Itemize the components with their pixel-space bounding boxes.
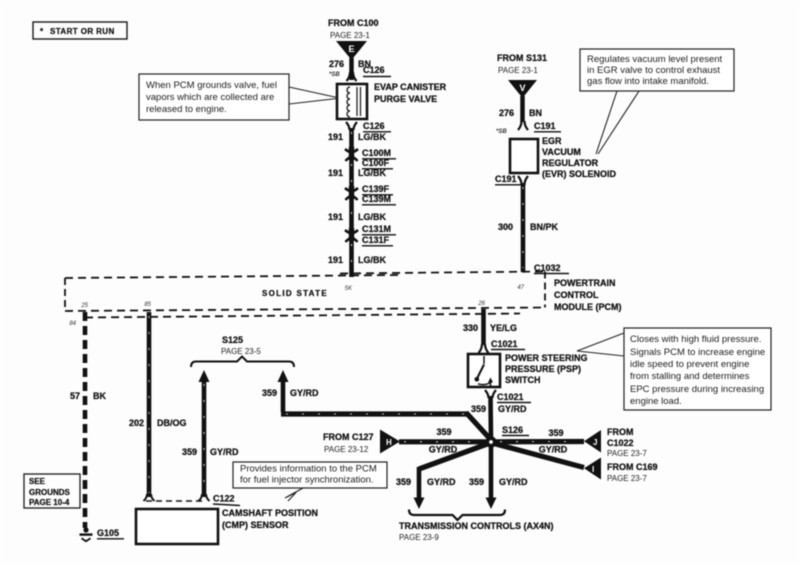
svg-text:FROM S131: FROM S131 <box>497 53 547 63</box>
svg-text:C100F: C100F <box>362 158 390 168</box>
svg-text:PAGE 23-7: PAGE 23-7 <box>607 449 647 458</box>
ground G105 <box>80 527 125 541</box>
SEE GROUNDS box <box>24 474 80 508</box>
svg-text:PAGE 23-9: PAGE 23-9 <box>399 533 439 542</box>
svg-text:Regulates vacuum level present: Regulates vacuum level present <box>587 54 723 65</box>
svg-text:47: 47 <box>517 285 524 291</box>
svg-text:C126: C126 <box>363 65 385 75</box>
svg-text:vapors which are collected are: vapors which are collected are <box>146 92 274 103</box>
label FROM C100 PAGE 23-1 <box>328 18 379 40</box>
connector triangle J <box>584 430 601 453</box>
svg-text:idle speed to prevent engine: idle speed to prevent engine <box>630 359 749 370</box>
wire label 202 DB/OG <box>129 418 187 428</box>
svg-text:PAGE 23-5: PAGE 23-5 <box>221 347 261 356</box>
wire label 359 GY/RD (down) <box>469 477 528 487</box>
wire from V to EGR <box>520 96 525 122</box>
connector triangle H <box>380 430 400 454</box>
svg-text:PAGE 23-1: PAGE 23-1 <box>498 66 538 75</box>
svg-text:276: 276 <box>329 59 344 69</box>
label FROM C169 PAGE 23-7 <box>607 462 658 483</box>
svg-text:359: 359 <box>436 427 451 437</box>
callout: when PCM grounds valve <box>139 74 337 120</box>
svg-text:YE/LG: YE/LG <box>490 323 517 333</box>
svg-text:C139F: C139F <box>362 184 390 194</box>
wire label 191 LG/BK (3) <box>328 212 387 222</box>
svg-text:VACUUM: VACUUM <box>542 147 581 157</box>
connector triangle E <box>336 41 367 60</box>
dashed connector line C122 <box>146 500 204 502</box>
svg-text:When PCM grounds valve, fuel: When PCM grounds valve, fuel <box>146 80 277 91</box>
svg-text:GY/RD: GY/RD <box>290 388 319 398</box>
svg-text:*SB: *SB <box>329 72 340 78</box>
label FROM S131 PAGE 23-1 <box>497 53 547 75</box>
wire label 300 BN/PK <box>498 222 559 232</box>
svg-text:SEE: SEE <box>29 477 46 486</box>
svg-text:LG/BK: LG/BK <box>358 132 386 142</box>
wire H to junction <box>399 439 487 444</box>
connector bell below EGR <box>518 176 528 185</box>
svg-text:276: 276 <box>499 108 514 118</box>
label POWER STEERING PRESSURE (PSP) SWITCH <box>505 353 588 385</box>
label EGR VACUUM REGULATOR (EVR) SOLENOID <box>542 136 617 179</box>
connector bell C1021 top <box>479 339 526 353</box>
svg-text:EGR: EGR <box>542 136 562 146</box>
svg-text:25: 25 <box>80 303 88 309</box>
camshaft position sensor box <box>136 509 218 544</box>
svg-text:191: 191 <box>328 255 343 265</box>
svg-text:J: J <box>593 438 597 447</box>
svg-text:(CMP) SENSOR: (CMP) SENSOR <box>222 520 289 530</box>
svg-text:GY/RD: GY/RD <box>499 477 528 487</box>
connector label C191 top <box>534 121 561 132</box>
svg-text:191: 191 <box>328 168 343 178</box>
svg-text:5K: 5K <box>345 286 353 292</box>
svg-text:START OR RUN: START OR RUN <box>50 27 115 36</box>
svg-text:GROUNDS: GROUNDS <box>29 488 71 497</box>
svg-text:engine load.: engine load. <box>630 396 682 407</box>
svg-text:CONTROL: CONTROL <box>554 290 599 300</box>
legend box START OR RUN <box>33 22 127 39</box>
EVAP canister purge valve <box>337 84 367 119</box>
connector label C191 bottom <box>495 174 521 185</box>
svg-text:TRANSMISSION CONTROLS (AX4N): TRANSMISSION CONTROLS (AX4N) <box>399 521 554 531</box>
inline connector C100M/C100F <box>345 147 396 169</box>
svg-text:G105: G105 <box>97 528 119 538</box>
svg-text:202: 202 <box>129 418 144 428</box>
svg-text:Signals PCM to increase engine: Signals PCM to increase engine <box>630 347 765 358</box>
wire label 276 BN <box>329 59 371 78</box>
svg-text:FROM C127: FROM C127 <box>323 432 374 442</box>
svg-text:C191: C191 <box>534 121 556 131</box>
svg-text:DB/OG: DB/OG <box>157 418 187 428</box>
svg-text:C100M: C100M <box>362 148 391 158</box>
svg-text:CAMSHAFT POSITION: CAMSHAFT POSITION <box>222 508 318 518</box>
wire down-left vertical with arrow <box>414 467 425 509</box>
svg-text:S126: S126 <box>502 425 523 435</box>
svg-text:C131M: C131M <box>362 224 391 234</box>
svg-text:C1022: C1022 <box>607 438 634 448</box>
svg-text:359: 359 <box>469 477 484 487</box>
connector label C126 <box>363 65 391 77</box>
label EVAP CANISTER PURGE VALVE <box>374 82 447 104</box>
svg-text:85: 85 <box>144 302 151 308</box>
svg-text:PAGE 23-1: PAGE 23-1 <box>330 31 370 40</box>
svg-text:330: 330 <box>463 323 478 333</box>
svg-text:gas flow into intake manifold.: gas flow into intake manifold. <box>587 76 709 87</box>
wire 330 YE/LG PCM to PSP <box>481 309 486 345</box>
callout: closes with high fluid pressure <box>577 328 771 410</box>
svg-text:in EGR valve to control exhaus: in EGR valve to control exhaust <box>587 65 720 76</box>
svg-text:191: 191 <box>328 132 343 142</box>
callout: regulates vacuum level <box>580 49 734 154</box>
svg-text:E: E <box>348 44 354 54</box>
svg-text:EPC pressure during increasing: EPC pressure during increasing <box>630 384 764 395</box>
wire label 191 LG/BK (2) <box>328 168 387 178</box>
wire 57 BK dashed to ground <box>83 312 88 528</box>
power steering pressure switch <box>468 354 500 387</box>
wire 202 DB/OG PCM to CMP <box>147 312 152 497</box>
splice junction S126 <box>485 436 496 447</box>
wire flare into CMP left <box>144 494 155 501</box>
inline connector C131M/C131F <box>345 224 396 246</box>
label FROM C1022 PAGE 23-7 <box>607 427 647 458</box>
svg-text:359: 359 <box>396 477 411 487</box>
svg-text:PAGE 23-12: PAGE 23-12 <box>324 445 369 454</box>
wire flare into CMP right <box>199 494 210 501</box>
wire label 191 LG/BK (1) <box>328 132 387 142</box>
wire horizontal to junction <box>281 413 492 442</box>
splice label S126 <box>502 425 529 436</box>
connector label C122 <box>213 494 240 506</box>
wire label 57 BK <box>70 391 107 401</box>
svg-text:191: 191 <box>328 212 343 222</box>
connector triangle V <box>508 80 537 98</box>
svg-text:C191: C191 <box>495 174 517 184</box>
svg-text:LG/BK: LG/BK <box>358 255 386 265</box>
svg-text:from stalling and determines: from stalling and determines <box>630 371 750 382</box>
svg-text:BN: BN <box>529 108 542 118</box>
wire label 276 BN (right) <box>496 108 542 135</box>
svg-text:PAGE 23-7: PAGE 23-7 <box>607 474 647 483</box>
svg-text:V: V <box>519 83 525 93</box>
svg-text:GY/RD: GY/RD <box>429 445 458 455</box>
label TRANSMISSION CONTROLS (AX4N) PAGE 23-9 <box>399 521 554 542</box>
connector bell C126 bottom <box>346 121 391 132</box>
svg-text:LG/BK: LG/BK <box>358 212 386 222</box>
svg-text:I: I <box>592 465 594 474</box>
svg-text:C1021: C1021 <box>497 392 524 402</box>
wire label 191 LG/BK (4) <box>328 255 387 265</box>
wire junction to J <box>495 439 584 444</box>
wire 300 BN/PK down to PCM <box>521 183 526 272</box>
svg-text:C1021: C1021 <box>491 339 518 349</box>
svg-text:FROM: FROM <box>607 427 634 437</box>
connector triangle I <box>584 458 601 480</box>
svg-text:PRESSURE (PSP): PRESSURE (PSP) <box>505 364 581 374</box>
connector bell C191 <box>518 121 528 130</box>
svg-text:BN/PK: BN/PK <box>530 222 559 232</box>
svg-text:84: 84 <box>69 321 76 327</box>
svg-text:GY/RD: GY/RD <box>539 445 568 455</box>
svg-text:GY/RD: GY/RD <box>427 477 456 487</box>
wire from E to EVAP valve <box>349 58 354 80</box>
wire PSP to junction 359 GY/RD <box>488 396 493 440</box>
wire label 359 GY/RD (PSP) <box>471 404 527 414</box>
wire label 359 GY/RD (S125 branch) <box>262 388 319 398</box>
svg-text:26: 26 <box>477 301 485 307</box>
wire label 359 GY/RD (CMP) <box>182 447 239 457</box>
wire label 359 GY/RD (J) <box>539 428 568 455</box>
label CAMSHAFT POSITION (CMP) SENSOR <box>222 508 318 530</box>
svg-text:(EVR) SOLENOID: (EVR) SOLENOID <box>542 169 617 179</box>
svg-text:LG/BK: LG/BK <box>358 168 386 178</box>
wire label 330 YE/LG <box>463 323 517 333</box>
svg-text:MODULE (PCM): MODULE (PCM) <box>554 302 622 312</box>
wire junction down-left diagonal <box>419 443 490 469</box>
svg-text:Provides information to the PC: Provides information to the PCM <box>240 464 377 475</box>
wire label 359 GY/RD (H) <box>429 427 458 455</box>
svg-text:SWITCH: SWITCH <box>505 375 541 385</box>
svg-text:REGULATOR: REGULATOR <box>542 158 599 168</box>
svg-text:359: 359 <box>548 428 563 438</box>
svg-text:*SB: *SB <box>496 129 507 135</box>
svg-text:300: 300 <box>498 222 513 232</box>
svg-text:FROM C100: FROM C100 <box>328 18 379 28</box>
svg-text:S125: S125 <box>222 335 243 345</box>
wire 191 LG/BK down to PCM <box>349 128 354 277</box>
arrow up to S125 (left) <box>199 370 210 497</box>
svg-text:for fuel injector synchronizat: for fuel injector synchronization. <box>240 475 374 486</box>
EGR vacuum regulator solenoid <box>510 139 538 173</box>
svg-text:GY/RD: GY/RD <box>498 404 527 414</box>
label S125 PAGE 23-5 <box>221 335 261 356</box>
inline connector C139F/C139M <box>345 184 396 205</box>
svg-text:POWERTRAIN: POWERTRAIN <box>554 278 616 288</box>
label FROM C127 PAGE 23-12 <box>323 432 374 454</box>
svg-text:POWER STEERING: POWER STEERING <box>505 353 588 363</box>
PCM dashed box <box>65 272 545 318</box>
svg-text:EVAP CANISTER: EVAP CANISTER <box>374 82 447 92</box>
svg-text:C131F: C131F <box>362 235 390 245</box>
svg-text:359: 359 <box>182 447 197 457</box>
connector label C1032 <box>534 263 569 274</box>
svg-text:C122: C122 <box>213 494 235 504</box>
wire junction to I diagonal <box>492 443 584 468</box>
arrow up to S125 (right) <box>278 370 289 412</box>
splice bracket S125 <box>191 357 294 368</box>
svg-text:H: H <box>386 438 392 447</box>
wire down vertical with arrow <box>486 444 497 509</box>
svg-text:Closes with high fluid pressur: Closes with high fluid pressure. <box>630 334 761 345</box>
svg-text:359: 359 <box>262 388 277 398</box>
connector bell C126 top <box>347 72 357 81</box>
wire label 359 GY/RD (left down) <box>396 477 456 487</box>
svg-text:PURGE VALVE: PURGE VALVE <box>374 94 437 104</box>
svg-text:released to engine.: released to engine. <box>146 104 227 115</box>
connector bell C1021 bottom <box>485 390 531 403</box>
brace TRANSMISSION CONTROLS <box>409 510 505 521</box>
svg-text:BK: BK <box>93 391 106 401</box>
callout: provides information to the PCM <box>233 462 387 501</box>
svg-text:GY/RD: GY/RD <box>210 447 239 457</box>
svg-text:SOLID STATE: SOLID STATE <box>262 289 328 298</box>
svg-text:57: 57 <box>70 391 80 401</box>
svg-text:359: 359 <box>471 404 486 414</box>
label POWERTRAIN CONTROL MODULE (PCM) <box>554 278 622 312</box>
svg-text:C139M: C139M <box>362 194 391 204</box>
svg-text:PAGE 10-4: PAGE 10-4 <box>29 498 70 507</box>
svg-text:FROM C169: FROM C169 <box>607 462 658 472</box>
svg-text:C126: C126 <box>363 121 385 131</box>
